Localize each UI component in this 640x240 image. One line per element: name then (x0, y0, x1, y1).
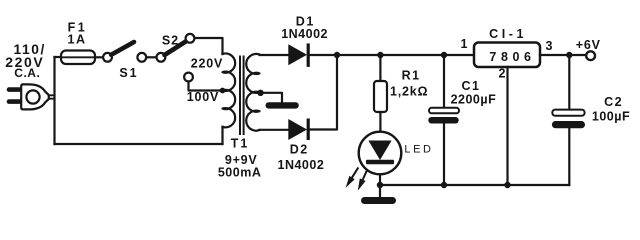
wire center tap (261, 93, 283, 102)
wire R1 to LED (379, 112, 381, 132)
node A junction dot D1/D2 (334, 52, 340, 58)
ground bar under LED (361, 197, 396, 204)
svg-text:500mA: 500mA (218, 166, 262, 180)
fuse F1 body (61, 51, 95, 65)
svg-text:1A: 1A (68, 32, 87, 46)
wire C2 to bottom rail (568, 128, 570, 185)
node C1 bottom dot (441, 182, 447, 188)
svg-text:7806: 7806 (489, 50, 535, 64)
wire bottom return (55, 143, 223, 145)
wire rail to C1 (443, 55, 445, 108)
plug prong top (7, 87, 22, 92)
wire primary bottom (221, 127, 223, 144)
LED circle (359, 132, 402, 175)
node pin2 bottom dot (504, 182, 510, 188)
svg-text:100V: 100V (187, 90, 219, 104)
wire S2 to primary top (195, 38, 223, 54)
wire S1 to S2 (146, 56, 155, 58)
wire D1 to node A (310, 54, 337, 56)
diode D1 triangle (288, 44, 307, 65)
node primary 100V tap dot (220, 88, 226, 94)
wire rail to R1 (379, 55, 381, 81)
switch S2 220V terminal (186, 34, 195, 43)
wire left vertical (53, 57, 55, 144)
AC plug P1 body (21, 84, 49, 109)
label 110/220V C.A. (5, 42, 46, 80)
LED arrow 2 (363, 170, 367, 180)
svg-text:3: 3 (546, 39, 553, 53)
svg-text:D2: D2 (290, 143, 309, 157)
svg-text:S2: S2 (162, 34, 179, 48)
regulator CI-1 box (474, 43, 540, 68)
switch S2 blade (165, 41, 188, 56)
wire LED to bottom rail (379, 174, 381, 185)
plug prong bottom (7, 99, 22, 104)
svg-text:R1: R1 (402, 68, 421, 82)
wire C1 to bottom rail (443, 124, 445, 186)
svg-text:1N4002: 1N4002 (281, 27, 328, 41)
svg-text:100µF: 100µF (592, 110, 630, 124)
node LED bottom dot (377, 182, 383, 188)
ground bar center tap (266, 102, 299, 108)
svg-text:S1: S1 (119, 66, 138, 80)
output terminal +6V (586, 51, 595, 60)
wire D2 to node A (310, 55, 337, 130)
diode D2 triangle (288, 119, 307, 140)
wire regulator output (540, 54, 586, 56)
node R1 top dot (377, 52, 383, 58)
svg-text:1: 1 (461, 37, 468, 51)
svg-text:220V: 220V (191, 57, 223, 71)
transformer T1 core (240, 57, 244, 135)
fuse F1 mid line (62, 56, 94, 58)
switch S1 right terminal (137, 53, 146, 62)
svg-text:2200µF: 2200µF (451, 93, 497, 107)
svg-text:C2: C2 (604, 95, 623, 109)
wire 100V tap (189, 82, 223, 91)
switch S2 common terminal (157, 53, 166, 62)
wire rail to C2 (568, 55, 570, 110)
svg-text:+6V: +6V (576, 38, 601, 52)
AC plug inner circle (26, 90, 39, 103)
node secondary center tap dot (257, 90, 263, 96)
diode D1 cathode bar (307, 43, 310, 67)
transformer T1 primary winding (223, 54, 236, 128)
svg-text:1N4002: 1N4002 (278, 158, 325, 172)
100V tap terminal (184, 73, 193, 82)
wire into fuse (55, 56, 62, 58)
svg-text:1,2kΩ: 1,2kΩ (390, 85, 428, 99)
wire secondary bottom to D2 (260, 129, 289, 131)
wire fuse to S1 (95, 56, 102, 58)
resistor R1 body (374, 81, 387, 112)
wire bottom rail (380, 184, 569, 186)
LED cathode bar (366, 160, 394, 164)
capacitor C1 top plate (429, 108, 459, 114)
wire top rail (337, 54, 474, 56)
diode D2 cathode bar (307, 119, 310, 141)
wire to ground (379, 185, 381, 197)
capacitor C1 bottom plate (428, 117, 458, 124)
svg-text:2: 2 (499, 67, 506, 81)
transformer T1 secondary winding (246, 54, 259, 131)
node C1 top dot (441, 52, 447, 58)
svg-text:CI-1: CI-1 (489, 27, 527, 41)
wire pin2 to bottom rail (506, 67, 508, 185)
node C2 top dot (566, 52, 572, 58)
capacitor C2 top plate (552, 110, 584, 116)
svg-text:C.A.: C.A. (14, 66, 40, 80)
switch S1 blade (111, 42, 134, 55)
wire plug cable pair (49, 95, 55, 98)
svg-text:C1: C1 (462, 79, 481, 93)
capacitor C2 bottom plate (552, 121, 585, 128)
svg-text:T1: T1 (231, 137, 250, 151)
switch S1 left terminal (103, 53, 112, 62)
LED triangle (368, 141, 391, 161)
LED arrow 1 (352, 168, 358, 177)
svg-text:LED: LED (404, 144, 433, 156)
wire secondary top to D1 (260, 54, 289, 56)
